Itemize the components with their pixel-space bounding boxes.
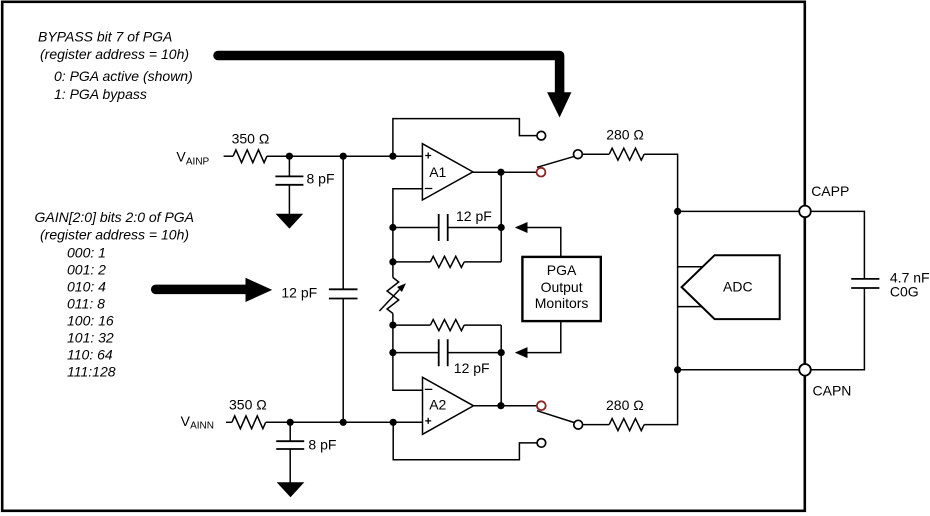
svg-text:AINP: AINP	[186, 157, 210, 168]
svg-text:CAPN: CAPN	[813, 383, 852, 399]
svg-text:12 pF: 12 pF	[456, 208, 492, 224]
svg-text:280 Ω: 280 Ω	[606, 127, 644, 143]
svg-text:010: 4: 010: 4	[67, 278, 106, 294]
svg-text:A2: A2	[429, 397, 446, 413]
svg-text:12 pF: 12 pF	[281, 285, 317, 301]
svg-text:Monitors: Monitors	[535, 295, 589, 311]
svg-text:GAIN[2:0] bits 2:0 of PGA: GAIN[2:0] bits 2:0 of PGA	[35, 209, 195, 225]
svg-text:0: PGA active (shown): 0: PGA active (shown)	[54, 68, 193, 84]
svg-text:111:128: 111:128	[67, 363, 116, 379]
svg-text:110: 64: 110: 64	[67, 346, 113, 362]
svg-text:350 Ω: 350 Ω	[232, 131, 270, 147]
svg-text:V: V	[176, 149, 186, 165]
svg-text:BYPASS bit 7 of PGA: BYPASS bit 7 of PGA	[38, 29, 172, 45]
svg-text:ADC: ADC	[723, 278, 753, 294]
svg-text:000: 1: 000: 1	[67, 244, 106, 260]
svg-text:PGA: PGA	[547, 262, 577, 278]
svg-text:12 pF: 12 pF	[454, 360, 490, 376]
svg-text:280 Ω: 280 Ω	[606, 397, 644, 413]
svg-text:8 pF: 8 pF	[307, 171, 335, 187]
svg-text:C0G: C0G	[890, 284, 919, 300]
svg-text:CAPP: CAPP	[811, 183, 849, 199]
svg-text:V: V	[181, 413, 191, 429]
svg-text:AINN: AINN	[190, 421, 214, 432]
svg-text:A1: A1	[429, 164, 446, 180]
svg-text:8 pF: 8 pF	[308, 437, 336, 453]
svg-text:1: PGA bypass: 1: PGA bypass	[54, 86, 147, 102]
svg-text:011: 8: 011: 8	[67, 295, 105, 311]
svg-text:100: 16: 100: 16	[67, 312, 114, 328]
svg-text:350 Ω: 350 Ω	[229, 396, 267, 412]
svg-text:(register address = 10h): (register address = 10h)	[40, 226, 189, 242]
svg-text:(register address = 10h): (register address = 10h)	[40, 46, 189, 62]
svg-text:Output: Output	[541, 279, 583, 295]
svg-text:101: 32: 101: 32	[67, 329, 114, 345]
svg-text:001: 2: 001: 2	[67, 261, 106, 277]
